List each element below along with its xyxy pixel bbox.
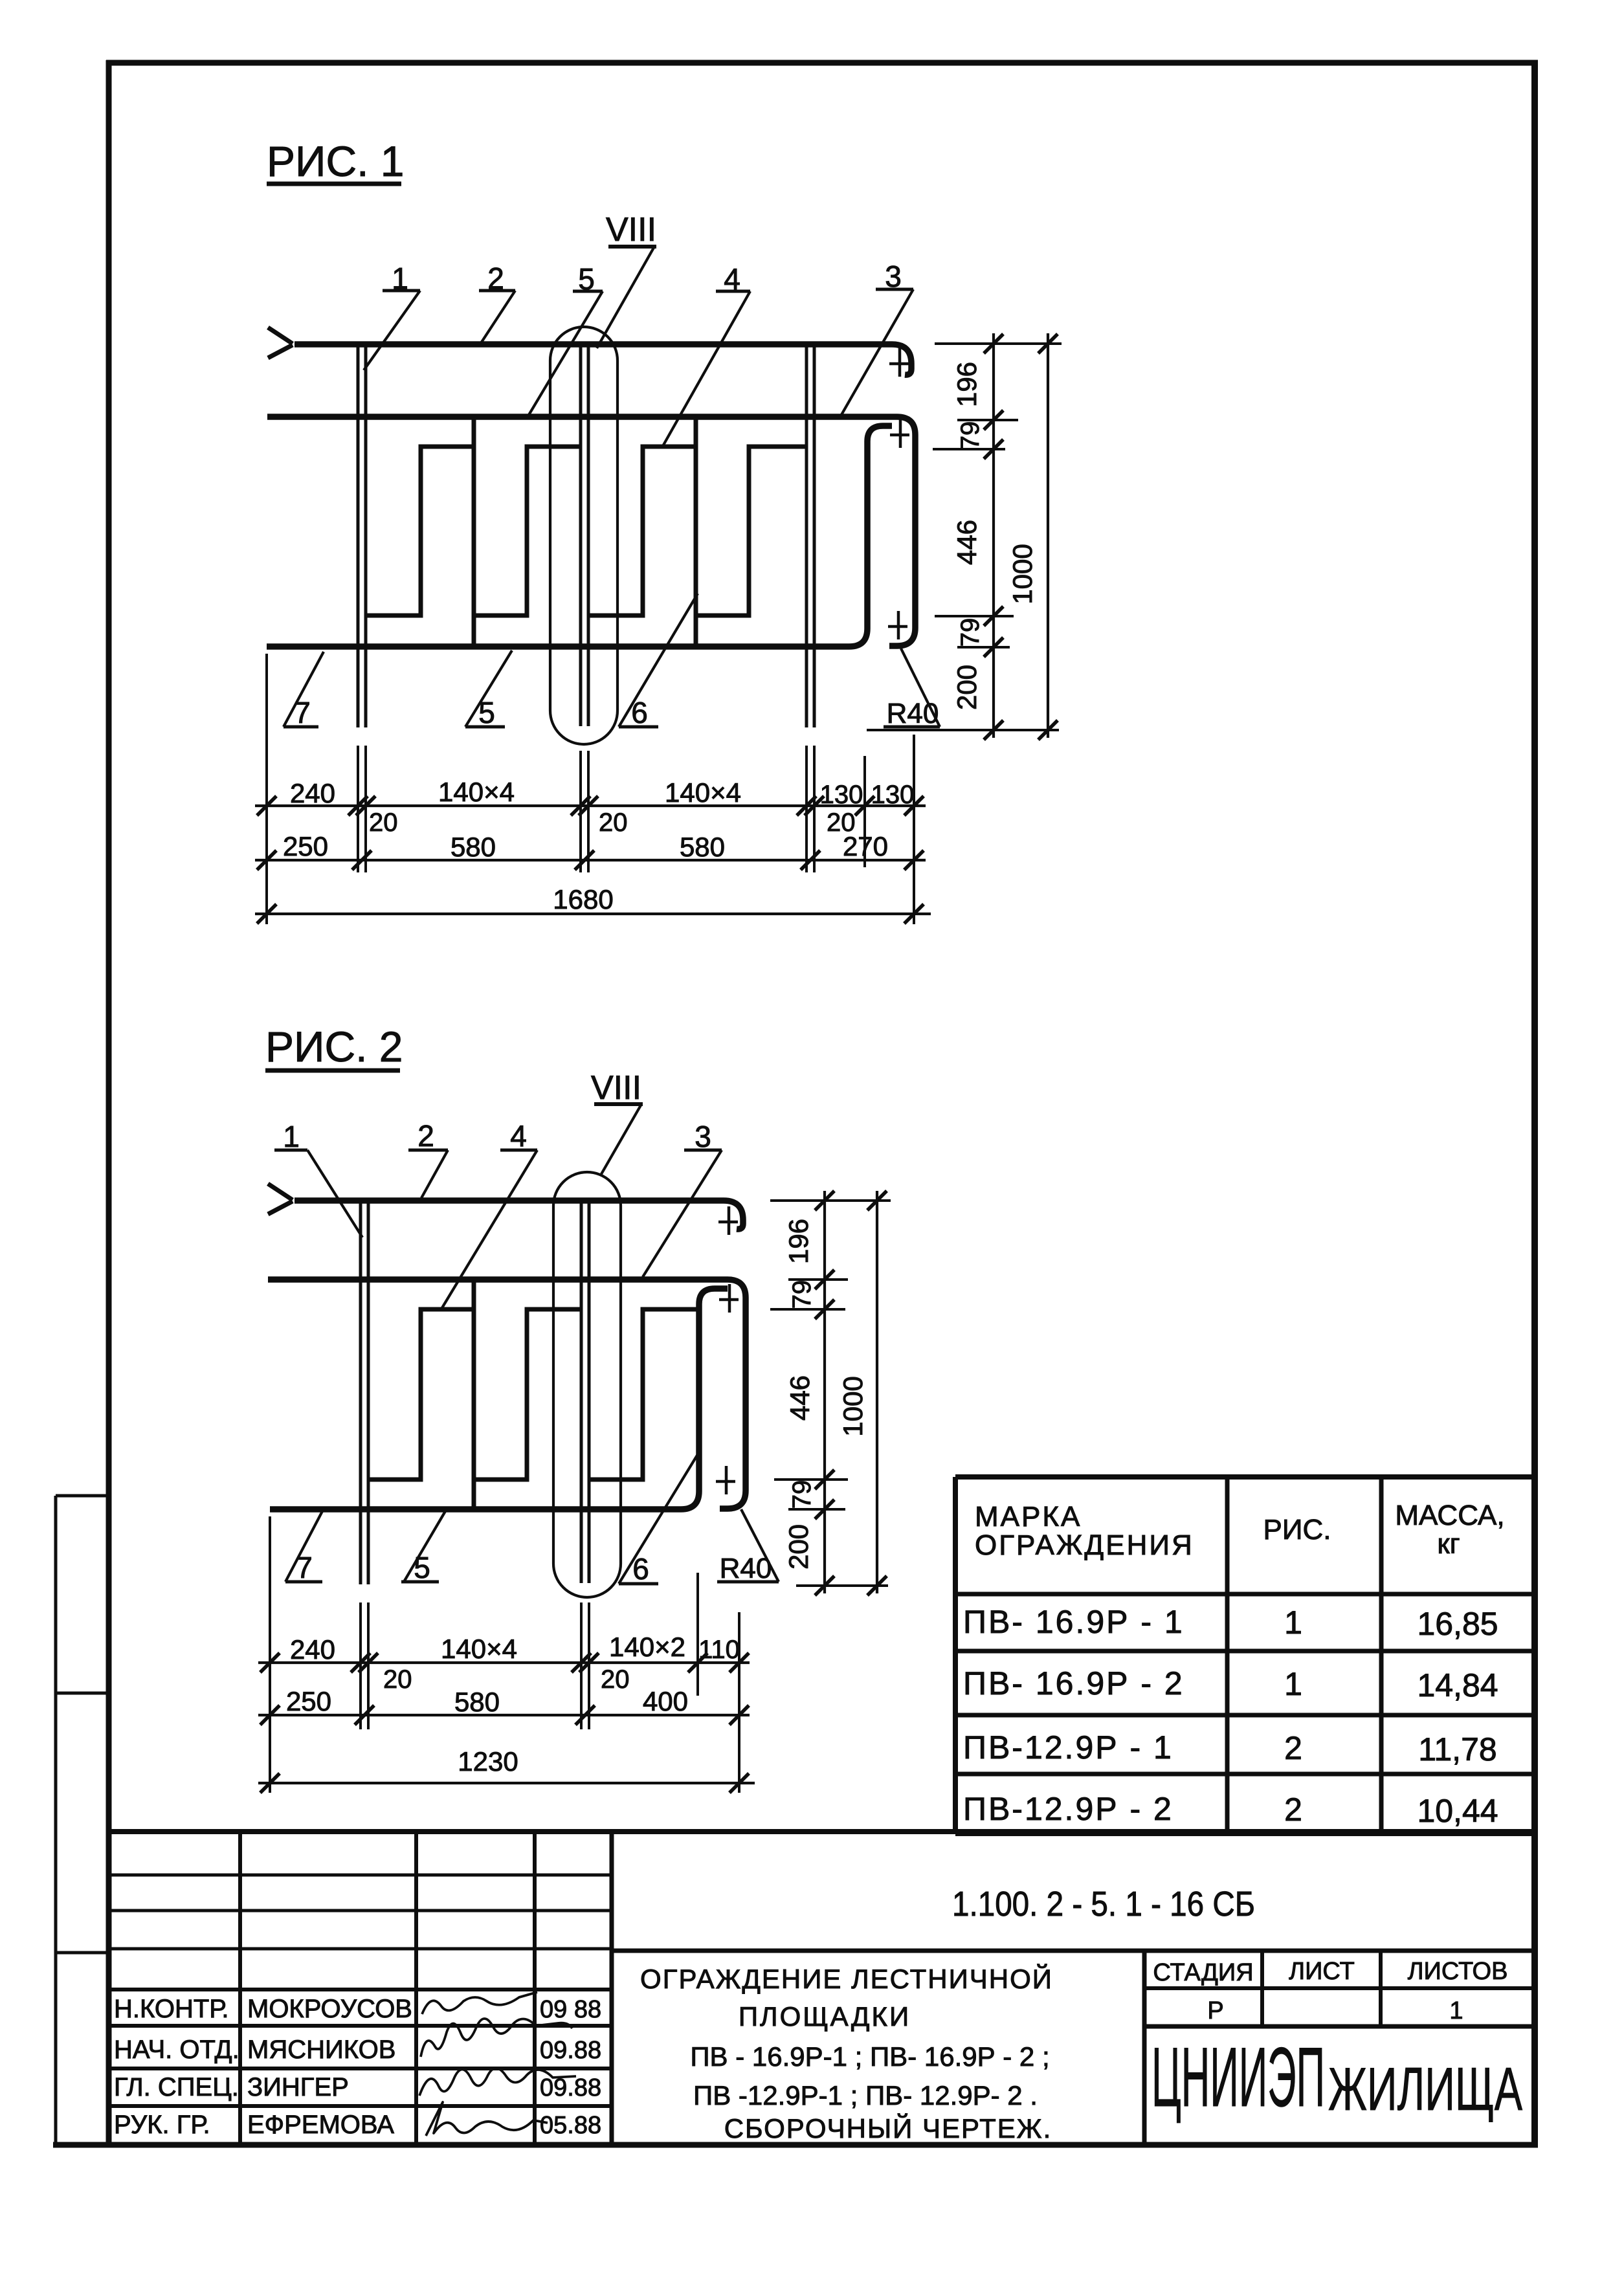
document number box [612,1949,1535,1953]
svg-text:ГЛ. СПЕЦ.: ГЛ. СПЕЦ. [114,2073,239,2101]
handrail rail 2 (top rail) fig1 [295,344,911,375]
svg-text:1: 1 [1449,1997,1463,2024]
fig1 overall 1000 dim line [1047,333,1049,738]
meander infill rod 4 fig2 [368,1282,697,1507]
post 1 (left stand) fig1 [357,346,360,727]
bottom rail with R40 upturn fig2 [270,1289,728,1509]
svg-text:79: 79 [956,618,984,647]
svg-text:ОГРАЖДЕНИЕ ЛЕСТНИЧНОЙ: ОГРАЖДЕНИЕ ЛЕСТНИЧНОЙ [640,1963,1053,1994]
svg-text:ПВ- 16.9Р - 2: ПВ- 16.9Р - 2 [963,1665,1185,1702]
svg-text:140×4: 140×4 [438,777,515,807]
fig1 dim row 240/140x4/140x4/130/130 [255,804,926,807]
svg-text:ПВ -12.9Р-1 ; ПВ- 12.9Р- 2 .: ПВ -12.9Р-1 ; ПВ- 12.9Р- 2 . [693,2080,1038,2111]
svg-text:79: 79 [788,1280,816,1309]
handrail top rail fig2 [295,1201,743,1229]
section VIII loop oval fig1 [550,327,617,744]
fig2 dim row 240/140x4/140x2/110 [258,1661,750,1664]
svg-text:Н.КОНТР.: Н.КОНТР. [114,1995,229,2023]
svg-text:05.88: 05.88 [540,2112,601,2139]
bottom rail 3 with R40 upturn fig1 [267,426,892,647]
signatures (squiggles) [422,1992,537,2014]
fig1 vertical chain dim line [992,333,995,738]
post (centre stand) fig2 [580,1202,583,1583]
svg-text:ЗИНГЕР: ЗИНГЕР [247,2073,349,2101]
svg-text:10,44: 10,44 [1417,1793,1498,1829]
svg-text:СТАДИЯ: СТАДИЯ [1153,1959,1253,1986]
weld mark fig2 mid-rail/upturn [719,1284,739,1313]
svg-text:РИС. 2: РИС. 2 [265,1023,403,1070]
svg-text:ЛИСТ: ЛИСТ [1289,1958,1355,1985]
svg-text:14,84: 14,84 [1417,1667,1498,1703]
svg-text:РИС. 1: РИС. 1 [267,137,405,185]
svg-text:РУК. ГР.: РУК. ГР. [114,2111,210,2139]
svg-text:16,85: 16,85 [1417,1606,1498,1642]
svg-text:ПВ- 16.9Р - 1: ПВ- 16.9Р - 1 [963,1604,1185,1640]
stage/sheet box [1260,1951,1264,2026]
svg-text:ПВ-12.9Р - 2: ПВ-12.9Р - 2 [963,1791,1174,1827]
weld mark fig2 bottom-rail end [716,1466,735,1494]
svg-text:ЖИЛИЩА: ЖИЛИЩА [1328,2055,1522,2123]
svg-text:20: 20 [601,1665,630,1694]
svg-text:3: 3 [695,1120,711,1153]
svg-text:R40: R40 [720,1553,772,1584]
svg-text:1680: 1680 [553,884,613,915]
svg-text:МЯСНИКОВ: МЯСНИКОВ [247,2035,395,2064]
svg-text:130: 130 [871,781,915,809]
svg-text:250: 250 [283,831,328,861]
middle rail 5 with R40 end bend fig1 [267,417,915,646]
svg-text:110: 110 [698,1635,740,1664]
svg-text:240: 240 [290,1634,335,1665]
svg-text:РИС.: РИС. [1263,1514,1331,1546]
svg-text:ЛИСТОВ: ЛИСТОВ [1408,1958,1508,1985]
svg-text:200: 200 [951,665,982,710]
svg-text:20: 20 [383,1665,412,1694]
svg-text:ПВ-12.9Р - 1: ПВ-12.9Р - 1 [963,1729,1174,1766]
svg-text:ПЛОЩАДКИ: ПЛОЩАДКИ [739,2001,911,2032]
svg-text:ПВ - 16.9Р-1 ; ПВ- 16.9Р - 2: ПВ - 16.9Р-1 ; ПВ- 16.9Р - 2 ; [690,2041,1049,2072]
weld mark fig1 top-rail end [889,348,909,377]
left margin stamp boxes [56,1496,109,2145]
fig2 overall 1000 dim line [876,1191,878,1593]
fig1 right extension lines [867,344,1062,730]
post (centre stand) fig1 [579,346,583,726]
svg-text:400: 400 [643,1686,688,1716]
svg-text:кг: кг [1437,1528,1460,1560]
svg-text:1: 1 [1284,1666,1302,1702]
fig2 right extension lines [770,1201,891,1586]
svg-text:2: 2 [1284,1791,1302,1828]
break fishtail fig2 top rail [268,1184,293,1200]
title block grid left [107,1832,1535,2143]
svg-text:09.88: 09.88 [540,2037,601,2064]
svg-text:580: 580 [680,832,725,862]
svg-text:580: 580 [450,832,496,862]
svg-text:09 88: 09 88 [540,1996,601,2023]
fig2 dim row 250/580/400 [258,1714,750,1716]
fig1 dimension extension lines bottom [267,654,914,924]
svg-text:446: 446 [784,1375,815,1421]
svg-text:79: 79 [956,421,984,450]
svg-text:1: 1 [1284,1604,1302,1641]
svg-text:140×4: 140×4 [665,777,741,808]
svg-text:ОГРАЖДЕНИЯ: ОГРАЖДЕНИЯ [975,1529,1194,1561]
svg-text:МАРКА: МАРКА [975,1501,1082,1533]
svg-text:09.88: 09.88 [540,2074,601,2101]
meander infill rod 4 fig1 [366,419,806,645]
svg-text:2: 2 [1284,1730,1302,1766]
svg-text:130: 130 [820,781,863,809]
svg-text:11,78: 11,78 [1418,1731,1496,1768]
svg-text:200: 200 [783,1524,814,1569]
svg-text:1000: 1000 [1007,544,1038,604]
weld mark fig1 mid-rail/upturn [890,419,909,448]
svg-text:4: 4 [510,1119,527,1153]
svg-text:446: 446 [951,520,982,565]
break fishtail fig1 top rail [268,327,293,344]
svg-text:140×2: 140×2 [609,1632,685,1662]
weld mark fig2 top-rail end [718,1206,738,1235]
svg-text:196: 196 [783,1219,814,1264]
fig1 dim row 250/580/580/270 [255,859,926,861]
post 3 (right stand) fig1 [805,346,808,727]
svg-text:НАЧ. ОТД.: НАЧ. ОТД. [114,2035,239,2064]
svg-text:VIII: VIII [591,1069,641,1107]
svg-text:1000: 1000 [838,1376,868,1436]
marks/mass table [955,1477,1535,1834]
weld mark fig1 bottom-rail end [888,611,907,639]
svg-text:79: 79 [788,1480,816,1509]
drawing title [1142,1951,1147,2143]
svg-text:270: 270 [843,831,888,861]
svg-text:МАССА,: МАССА, [1395,1500,1504,1531]
svg-text:1.100. 2 - 5. 1 - 16 СБ: 1.100. 2 - 5. 1 - 16 СБ [952,1885,1255,1924]
svg-text:МОКРОУСОВ: МОКРОУСОВ [247,1995,412,2023]
svg-text:20: 20 [599,808,628,837]
fig2 dim row 1230 [258,1782,755,1784]
svg-text:20: 20 [369,808,398,837]
section VIII loop oval fig2 [553,1172,621,1597]
svg-text:196: 196 [951,362,982,407]
fig2 vertical chain dim line [823,1191,826,1593]
fig1 dim row 1680 [255,913,931,915]
svg-text:250: 250 [286,1686,331,1716]
svg-text:5: 5 [414,1551,430,1584]
svg-text:VIII: VIII [606,211,656,249]
post 1 (left stand) fig2 [359,1202,362,1584]
svg-text:580: 580 [454,1687,500,1717]
svg-text:Р: Р [1207,1997,1223,2024]
svg-text:СБОРОЧНЫЙ ЧЕРТЕЖ.: СБОРОЧНЫЙ ЧЕРТЕЖ. [724,2112,1052,2144]
svg-text:1: 1 [283,1120,300,1153]
svg-text:ЦНИИЭП: ЦНИИЭП [1151,2030,1325,2124]
svg-text:R40: R40 [887,698,939,729]
svg-text:140×4: 140×4 [441,1634,517,1664]
svg-text:ЕФРЕМОВА: ЕФРЕМОВА [247,2111,394,2139]
middle rail with R40 end bend fig2 [268,1280,746,1509]
svg-text:1230: 1230 [458,1746,518,1777]
svg-text:240: 240 [290,778,335,808]
svg-text:2: 2 [417,1119,434,1153]
fig2 dimension extension lines bottom [270,1516,739,1793]
